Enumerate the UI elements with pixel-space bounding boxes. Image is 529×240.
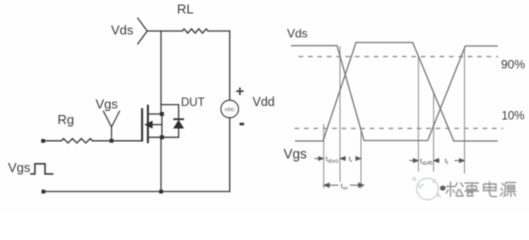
junction dot source-rail (159, 190, 163, 194)
vertical line t6 (464, 47, 466, 174)
svg-text:Rg: Rg (58, 112, 75, 127)
dashed 90% level line (299, 56, 498, 58)
wire right vertical to Vdd+ (229, 31, 231, 100)
svg-text:+: + (236, 83, 245, 100)
svg-text:Vdd: Vdd (253, 95, 275, 109)
arrow into t4 from left (410, 160, 415, 162)
wire top rail right of RL (208, 30, 230, 32)
wire bottom rail (43, 191, 229, 193)
wire gate lead to gate bar (93, 140, 143, 142)
arrow into t6 from left (455, 160, 461, 162)
arrows td(off)/tf row (410, 159, 465, 163)
transistor Q1 DUT channel bar (147, 105, 149, 144)
watermark text 松哥电源 (446, 181, 516, 197)
wire top rail left of RL (147, 30, 182, 32)
waveform Vds trace (291, 46, 498, 141)
vertical line t3 (360, 128, 362, 189)
wire Vdd- down (229, 118, 231, 192)
glyph 哥 (465, 183, 480, 196)
glyph 电 (484, 181, 498, 197)
wire source vertical down (160, 137, 162, 191)
watermark logo (412, 177, 441, 200)
glyph 源 (500, 183, 516, 198)
wire gate lead with resistor Rg (43, 140, 61, 142)
svg-text:Vds: Vds (111, 23, 134, 38)
resistor RL (182, 29, 208, 33)
junction dot source-bulk (160, 135, 164, 139)
terminal dot bottom left (42, 190, 46, 194)
probe Vgs (104, 111, 120, 141)
svg-text:Vgs: Vgs (8, 160, 31, 175)
wire source bottom bar (148, 136, 179, 138)
arrow into t5 from right (438, 160, 440, 162)
svg-text:tf: tf (445, 158, 449, 165)
svg-text:90%: 90% (501, 58, 525, 72)
junction dot drain-bulk (160, 112, 164, 116)
label - of Vdd (240, 123, 245, 126)
svg-text:Vgs: Vgs (96, 97, 119, 112)
resistor Rg (61, 139, 92, 143)
arrows ton row (324, 183, 364, 187)
vertical line t1 (323, 124, 325, 189)
probe Vds (138, 18, 147, 44)
transistor Q1 DUT gate bar (141, 108, 143, 141)
svg-text:10%: 10% (502, 111, 525, 123)
svg-text:Vds: Vds (287, 27, 308, 41)
arrow into t2 from right (345, 158, 347, 160)
arrow into t3 from left (356, 158, 358, 160)
wire drain vertical (160, 31, 162, 114)
wire bulk vertical (161, 114, 163, 137)
svg-text:td(off): td(off) (420, 158, 433, 165)
transistor Q1 bulk arrow (152, 124, 162, 126)
svg-text:RL: RL (177, 2, 194, 17)
svg-text:VDC: VDC (225, 107, 236, 113)
wire drain to diode top (161, 104, 179, 106)
vertical line t4 (417, 56, 419, 172)
arrow into t3 pointing right (350, 184, 359, 186)
arrow into t1 from left (315, 158, 320, 160)
arrows td(on)/tr row (315, 157, 361, 161)
diode D1 body diode (178, 105, 180, 138)
timing reference verticals (324, 46, 465, 189)
waveform Vgs trace (295, 43, 498, 142)
svg-text:DUT: DUT (181, 97, 205, 109)
dashed 10% level line (295, 127, 503, 129)
glyph 松 (446, 182, 464, 198)
pulse symbol (30, 164, 53, 174)
source V1 Vdd circle (221, 100, 239, 118)
svg-text:td(on): td(on) (326, 156, 339, 163)
terminal dot gate input (41, 139, 45, 143)
svg-text:tr: tr (349, 156, 353, 163)
junction dot probe Vgs (110, 139, 114, 143)
vertical line t2 (339, 46, 341, 182)
wire channel top (drain bar) (148, 113, 162, 115)
svg-text:Vgs: Vgs (284, 146, 308, 161)
arrow into t1 pointing left (324, 183, 329, 187)
svg-text:ton: ton (341, 183, 348, 190)
vertical line t5 (433, 92, 435, 172)
watermark bird mark (440, 186, 446, 191)
